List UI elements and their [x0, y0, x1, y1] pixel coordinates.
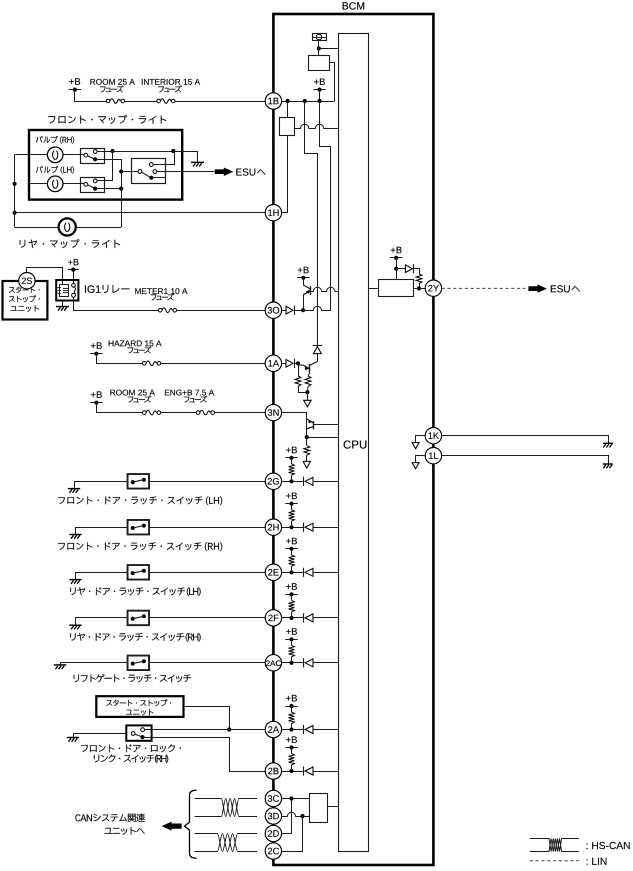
label latch switch 2H — [58, 542, 222, 551]
label start-stop2 line2 — [126, 709, 153, 716]
lock link switch box — [126, 725, 151, 740]
arrow to ESU (2Y) — [528, 284, 547, 293]
wire CAN-H to 2D — [282, 799, 292, 834]
wire breaker to junction — [318, 41, 320, 49]
terminal 2F — [265, 610, 281, 626]
fuse ROOM 25 A — [106, 99, 110, 103]
wire bulb LH left — [29, 183, 47, 185]
twisted pair HS-CAN 1 (3C/3D) — [195, 799, 258, 817]
legend label HS-CAN — [587, 842, 630, 849]
wire coil box to 2Y — [414, 288, 426, 290]
internal relay box (1B) — [309, 56, 330, 71]
rear map light bulb — [59, 218, 76, 235]
wire 2AC to diode — [282, 662, 304, 664]
label lock link line1 — [81, 744, 181, 752]
diode D-2H — [303, 523, 305, 532]
master switch box — [132, 159, 166, 184]
switch LH box — [81, 178, 105, 193]
wire between fuses — [125, 101, 157, 103]
wire bulb RH left — [29, 154, 47, 156]
wire hazard fuse to 1A — [161, 363, 266, 365]
wire 1A to junction — [294, 363, 298, 365]
relay IG1 coil — [58, 280, 69, 297]
internal ground arrow 1K — [412, 443, 419, 449]
resistor R-1A-1 — [295, 363, 301, 392]
wire 3C to transceiver — [282, 798, 310, 800]
internal ground arrow 1L — [412, 463, 419, 469]
junction 1A node — [296, 361, 300, 365]
wire breaker node to CPU — [319, 48, 339, 50]
resistor R-1A-2 — [305, 373, 311, 393]
latch switch 2E — [128, 565, 150, 580]
wire 1L internal — [416, 456, 426, 463]
power +B (room/eng feed) — [91, 391, 102, 398]
label rear map light — [20, 239, 120, 248]
ground G-2H — [69, 534, 81, 536]
master switch upper contact — [149, 163, 153, 167]
ground G-1L — [603, 463, 613, 465]
wire 2H diode to CPU — [313, 527, 338, 529]
junction 2AC pullup — [289, 661, 293, 665]
diode D-2F — [303, 613, 305, 622]
wire 1B rail — [282, 101, 335, 103]
terminal 2E — [265, 564, 281, 580]
label fuse room katakana — [128, 396, 152, 403]
BCM module box — [273, 14, 433, 865]
wire 3N in — [282, 413, 307, 438]
fuse ROOM 25 A (3N) — [143, 411, 147, 415]
fuse ENG+B 7.5 A — [196, 411, 200, 415]
label start-stop line1 — [9, 287, 40, 293]
switch LH com contact — [84, 182, 88, 186]
diode D-2B — [303, 766, 305, 775]
wire 2AC diode to CPU — [313, 662, 338, 664]
lock link com contact — [131, 732, 135, 736]
resistor R-2A — [289, 706, 295, 730]
master switch lever — [142, 172, 150, 177]
wire gnd rail right — [113, 151, 174, 153]
bulb RH lamp — [47, 147, 63, 163]
ground G-locklink — [67, 737, 79, 739]
junction 2B pullup — [289, 769, 293, 773]
relay IG1 box — [56, 280, 78, 301]
terminal 2AC — [265, 655, 281, 671]
wire +B to hazard fuse — [97, 354, 143, 364]
wire 2S to IG1 coil — [27, 268, 63, 281]
power +B (2E pull-up) — [286, 538, 297, 545]
terminal 1K — [425, 428, 441, 444]
wire master switch to ESU — [157, 171, 215, 173]
terminal 2G — [265, 473, 281, 489]
wire switch RH lower out — [95, 160, 121, 172]
power +B (2G pull-up) — [286, 447, 297, 454]
power +B (2Y circuit) — [391, 247, 402, 254]
diode D-2E — [303, 568, 305, 577]
switch RH com contact — [84, 153, 88, 157]
wire R1 to R2 join — [298, 392, 307, 394]
wire 1K to body ground — [442, 436, 609, 444]
label fuse-1 katakana — [100, 85, 124, 92]
wire latch switch 2H to 2H — [149, 527, 265, 529]
fuse HAZARD 15 A — [143, 362, 147, 366]
label ROOM 25 A — [90, 79, 134, 85]
ground G-2F — [69, 624, 81, 626]
ground G-2E — [69, 579, 81, 581]
junction 1B-b — [303, 99, 307, 103]
junction breaker node — [317, 46, 321, 50]
junction 2Y +B node — [394, 267, 398, 271]
wire CPU to coil box — [368, 288, 379, 290]
arrow to CAN units — [162, 822, 182, 831]
junction CAN-H node — [289, 796, 293, 800]
wire +B to fuse ROOM — [75, 90, 107, 102]
resistor R-2G — [289, 458, 295, 482]
wire +B to IG1 contact — [73, 270, 75, 284]
label ESU-he right — [551, 285, 580, 292]
junction map switch bus upper — [119, 169, 123, 173]
switch LH lower contact — [93, 187, 97, 191]
wire ground to latch switch 2AC — [61, 663, 128, 665]
latch switch 2F — [128, 611, 150, 626]
terminal 3D — [265, 808, 281, 824]
label latch switch 2AC — [74, 674, 191, 682]
wire switch LH lower out — [95, 188, 121, 190]
switch RH lower contact — [93, 157, 97, 161]
internal ground arrow 1A — [304, 400, 311, 407]
internal ground arrow 3N — [303, 461, 310, 468]
wire ground to latch switch 2G — [75, 482, 128, 489]
wire 1K internal — [416, 436, 426, 443]
resistor R-2E — [289, 549, 295, 573]
junction 3N node — [305, 435, 309, 439]
wire latch switch 2E to 2E — [149, 572, 265, 574]
wire ground to latch switch 2H — [76, 528, 128, 535]
wire bulb LH to switch LH — [63, 183, 84, 185]
junction switch RH upper rail — [110, 149, 114, 153]
switch RH box — [81, 149, 105, 164]
resistor R-3N — [304, 437, 310, 461]
start-stop unit box (2S) — [3, 281, 48, 320]
label INTERIOR 15 A — [142, 79, 200, 85]
fuse INTERIOR 15 A — [157, 99, 161, 103]
wire to internal ground 1A — [307, 392, 309, 400]
wire between 3N fuses — [161, 412, 197, 414]
terminal 2H — [265, 519, 281, 535]
wire breaker node to relay coil box — [318, 49, 320, 56]
wire master lower stub — [151, 177, 165, 179]
terminal 2Y — [425, 280, 441, 296]
label CAN-related units line2 — [105, 827, 145, 835]
junction left rail 1H — [13, 211, 17, 215]
label start-stop2 line1 — [106, 699, 171, 706]
terminal 2B — [265, 763, 281, 779]
wire transceiver to CPU — [327, 806, 338, 808]
junction 1B-a — [285, 99, 289, 103]
wire 2A to diode — [282, 729, 304, 731]
wire 2H to diode — [282, 527, 304, 529]
junction 2E pullup — [289, 570, 293, 574]
switch LH upper contact — [93, 179, 97, 183]
terminal 3C — [265, 790, 281, 806]
power +B (IG1 relay) — [68, 259, 78, 265]
label lock link line2 — [94, 755, 168, 764]
diode D-1A — [282, 359, 295, 368]
ground G-2G — [68, 488, 80, 490]
resistor R-2H — [289, 504, 295, 528]
label fuse METER1 katakana — [151, 293, 175, 300]
wire rail to ground — [173, 152, 197, 163]
label latch switch 2E — [70, 587, 200, 596]
bulb LH lamp — [47, 176, 63, 192]
wire 1B drop A lower — [287, 135, 289, 212]
ground G-IG1 — [56, 306, 69, 308]
arrow to ESU (map light) — [215, 167, 234, 176]
label CAN-related units line1 — [75, 814, 144, 823]
wire 2G diode to CPU — [313, 481, 338, 483]
wire 2B to diode — [282, 771, 304, 773]
wire relay box out to 1B rail — [330, 63, 335, 102]
left rail vertical — [14, 155, 16, 227]
switch RH lever — [88, 156, 94, 159]
label start-stop line2 — [9, 295, 40, 302]
label ESU-he left — [236, 169, 265, 176]
internal box (1B-1H path) — [280, 118, 295, 136]
wire map bus vertical — [121, 159, 123, 227]
wire line-B upper — [320, 101, 331, 310]
label latch switch 2G — [58, 496, 222, 505]
wire gnd to lock switch — [74, 734, 127, 738]
wire IG1 out to METER1 fuse — [74, 297, 159, 310]
master switch right contact — [153, 170, 157, 174]
start-stop unit box (2A) — [96, 696, 183, 717]
terminal 1L — [425, 448, 441, 464]
power +B (2F pull-up) — [286, 583, 297, 590]
diode D-2AC — [303, 658, 305, 667]
wire internal box to CPU with hops — [295, 124, 339, 128]
wire ground to latch switch 2F — [76, 618, 128, 626]
wire 3O node to line-B with hop — [303, 306, 331, 310]
label HAZARD 15 A — [109, 341, 162, 347]
wire master upper to rail — [153, 151, 174, 165]
wire 1H to left rail — [15, 212, 266, 214]
wire latch switch 2G to 2G — [149, 481, 265, 483]
relay IG1 contact upper — [72, 283, 76, 287]
power +B (2H pull-up) — [286, 493, 297, 500]
lock link lower contact — [140, 735, 144, 739]
wire 3O to junction — [294, 310, 303, 312]
wire 2E diode to CPU — [313, 572, 338, 574]
switch RH upper contact — [93, 150, 97, 154]
diode D-2G — [303, 477, 305, 486]
ground G-maplight — [191, 161, 204, 163]
power +B (2AC pull-up) — [286, 628, 297, 635]
power +B (1B node) — [314, 79, 325, 86]
switch LH lever — [88, 185, 94, 188]
wire Q-3N collector to CPU — [313, 424, 338, 426]
junction 2G pullup — [289, 479, 293, 483]
power +B (room/interior feed) — [69, 78, 80, 85]
master switch com contact — [138, 170, 142, 174]
label fuse hazard katakana — [128, 346, 152, 353]
wire CAN-L to 2C — [282, 816, 303, 852]
label bulb LH — [36, 166, 74, 174]
junction left rail bulb LH — [13, 182, 17, 186]
wire 3N node to CPU — [307, 437, 339, 439]
latch switch 2G — [128, 474, 150, 489]
label front map light — [48, 115, 166, 124]
terminal 3O — [265, 302, 281, 318]
wire 2F to diode — [282, 617, 304, 619]
terminal 2D — [265, 825, 281, 841]
wire +B down to 1B rail — [319, 90, 321, 101]
wire resistor to 2Y junction — [419, 284, 421, 289]
transistor Q-3N — [307, 419, 314, 429]
label fuse-2 katakana — [158, 85, 182, 92]
wire METER1 fuse to 3O — [177, 310, 266, 312]
label CPU — [344, 441, 367, 449]
wire left rail top to bulb RH — [15, 154, 29, 156]
wire fuse to 1B — [175, 101, 265, 103]
power +B (2B pull-up) — [286, 736, 297, 743]
junction 2F pullup — [289, 616, 293, 620]
relay coil box 2Y — [379, 280, 414, 297]
junction CAN-L node — [300, 814, 304, 818]
wire start-stop to 2A — [184, 707, 230, 730]
relay IG1 lever — [74, 287, 76, 294]
wire eng fuse to 3N — [214, 412, 265, 414]
wire 1L to body ground — [442, 456, 609, 464]
wire 3D to transceiver with hop — [282, 812, 310, 816]
label fuse eng katakana — [184, 396, 208, 403]
label ENG+B 7.5 A — [165, 390, 214, 396]
wire line-A upper — [305, 101, 318, 346]
wire latch switch 2AC to 2AC — [149, 662, 265, 664]
wire bulb RH to switch RH — [63, 154, 84, 156]
resistor R-2AC — [289, 639, 295, 663]
latch switch 2AC — [128, 656, 150, 671]
bracket CAN group — [185, 790, 197, 858]
ground G-2AC — [54, 664, 66, 666]
terminal 1A — [265, 355, 281, 371]
wire 1H to drop A — [282, 212, 288, 214]
wire rear bulb to bus — [76, 227, 121, 229]
wire 2A diode to CPU — [313, 729, 338, 731]
label METER1 10 A — [135, 288, 187, 294]
label BCM — [343, 2, 365, 9]
wire lock lower to 2B — [143, 738, 266, 772]
relay IG1 coil ground lead — [62, 301, 64, 307]
terminal 2S — [19, 273, 35, 289]
front map light box — [29, 130, 182, 200]
junction gnd rail — [171, 149, 175, 153]
terminal 2C — [265, 843, 281, 859]
wire +B to room fuse — [97, 403, 143, 413]
wire zener to transistor — [317, 354, 319, 362]
latch switch 2H — [128, 520, 150, 535]
fuse METER1 10 A — [158, 308, 162, 312]
relay IG1 contact lower — [72, 293, 76, 297]
circuit breaker icon — [312, 34, 327, 41]
junction map switch bus lower — [119, 187, 123, 191]
power +B (2A pull-up) — [286, 695, 297, 702]
wire 2F diode to CPU — [313, 617, 338, 619]
junction 2A feed — [227, 727, 231, 731]
junction 1A resistors — [305, 390, 309, 394]
junction 2A pullup — [289, 727, 293, 731]
diode D-zener-1A (to line-A) — [313, 345, 322, 347]
dashed LIN wire to ESU — [442, 287, 526, 289]
wire left rail to rear bulb — [15, 227, 59, 229]
transistor Q-1A — [298, 362, 317, 373]
wire 2G to diode — [282, 481, 304, 483]
CAN transceiver box — [310, 794, 328, 823]
wire lock upper to 2A — [145, 729, 266, 731]
wire bus to master switch — [121, 171, 138, 173]
wire diode to resistor — [414, 269, 420, 274]
wire rail down to switch LH upper — [97, 151, 112, 181]
master switch lower contact — [149, 176, 153, 180]
lock link lever — [135, 734, 141, 736]
transistor Q-3O — [303, 278, 310, 310]
diode D-3O — [282, 306, 295, 315]
label latch switch 2F — [70, 633, 200, 642]
junction 1B-c — [317, 99, 321, 103]
wire Q-3O collector to CPU with hops — [310, 287, 338, 291]
lock link upper contact — [141, 728, 145, 732]
wire 2B diode to CPU — [313, 771, 338, 773]
label bulb RH — [36, 136, 74, 144]
wire switch RH upper to gnd rail — [97, 151, 112, 153]
label start-stop line3 — [11, 305, 39, 312]
terminal 1B — [265, 93, 281, 109]
wire +B to 2Y node — [396, 258, 398, 269]
junction 2Y node — [417, 286, 421, 290]
diode D-2Y — [396, 264, 413, 273]
label IG1 relay — [85, 285, 130, 293]
diode D-2A — [303, 725, 305, 734]
power +B (3O driver) — [298, 267, 309, 274]
power +B (hazard) — [91, 342, 102, 349]
wire coil +B lead — [396, 269, 398, 280]
wire ground to latch switch 2E — [76, 573, 128, 580]
terminal 2A — [265, 721, 281, 737]
legend LIN dashed line — [530, 860, 579, 862]
ground G-1K — [603, 442, 613, 444]
label ROOM 25 A (3N) — [110, 390, 154, 396]
wire latch switch 2F to 2F — [149, 617, 265, 619]
resistor R-2B — [289, 748, 295, 772]
resistor R-2Y — [416, 274, 422, 284]
legend HS-CAN twisted pair symbol — [530, 839, 579, 852]
wire 1B drop A upper — [287, 101, 289, 118]
junction 3O node — [301, 308, 305, 312]
legend label LIN — [587, 858, 607, 865]
terminal 1H — [265, 205, 281, 221]
junction 2H pullup — [289, 525, 293, 529]
twisted pair HS-CAN 2 (2D/2C) — [195, 834, 258, 852]
resistor R-2F — [289, 594, 295, 618]
wire 2E to diode — [282, 572, 304, 574]
CPU box U-CPU — [339, 34, 369, 852]
terminal 3N — [265, 404, 281, 420]
